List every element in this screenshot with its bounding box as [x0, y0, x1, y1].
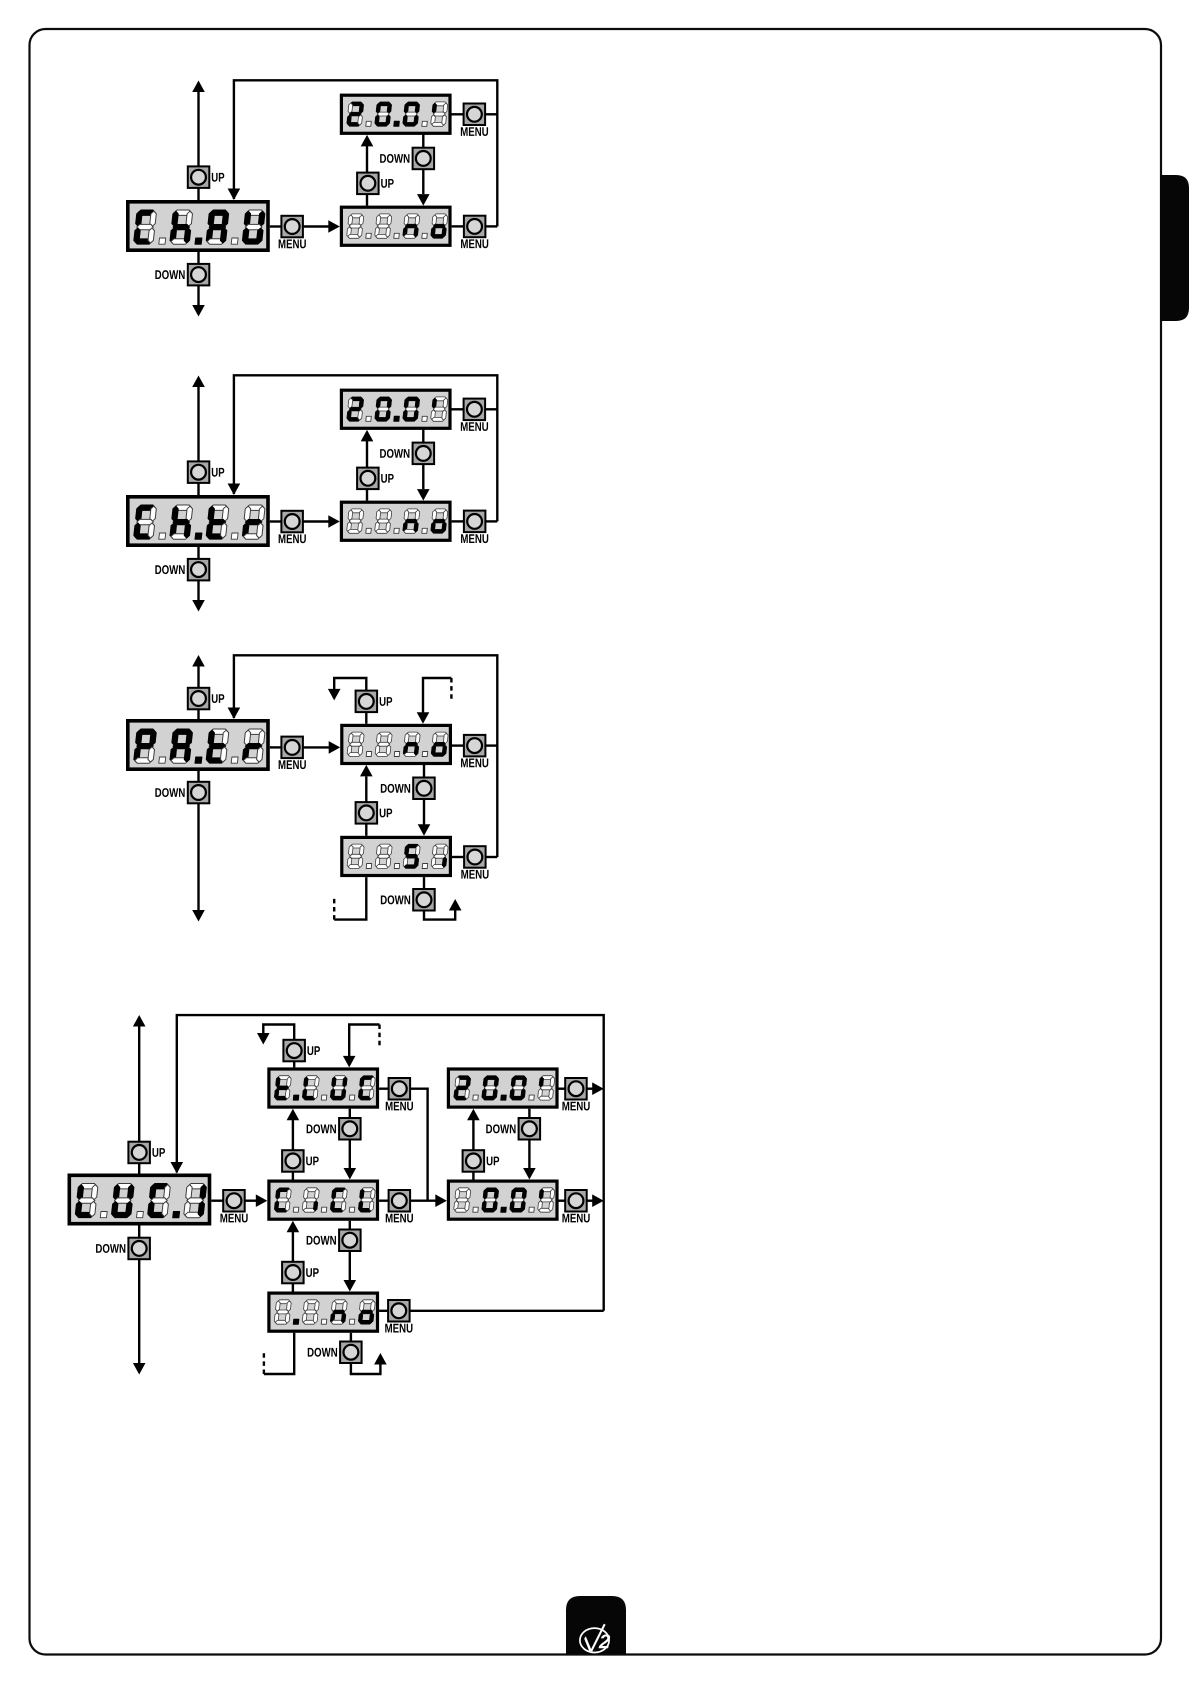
wire D3 no to DOWN [423, 765, 425, 778]
label DOWN [155, 788, 184, 797]
wire D4 MENU 0.0 exit [587, 1199, 595, 1201]
arrow D4 into 0.0 [435, 1194, 447, 1207]
display D4 CiCL [269, 1181, 378, 1219]
arrow D4 wrap into tLUC [343, 1056, 356, 1068]
display D1 no [341, 207, 450, 245]
wire D2 20.0 to MENU [451, 408, 463, 410]
button D1 MENU 20.0 [464, 104, 486, 126]
wire D2 display to MENU [270, 520, 282, 522]
arrow D4 down into CiCL [344, 1168, 357, 1180]
button D2 DOWN [188, 559, 210, 581]
label DOWN [307, 1236, 336, 1245]
button D4 MENU 20.0 [565, 1078, 587, 1100]
wire D3 dashed continuation [450, 678, 452, 700]
label MENU [461, 870, 488, 879]
arrow D2 axis down [192, 600, 205, 612]
wire D4 no to MENU [379, 1310, 388, 1312]
label UP [381, 179, 394, 188]
button D4 MENU tLUC [389, 1078, 411, 1100]
wire D2 no to 20.0 via UP [366, 441, 368, 501]
button D4 DOWN no [340, 1342, 362, 1364]
label UP [380, 809, 393, 818]
label UP [381, 474, 394, 483]
wire D4 DOWN wrap [351, 1363, 381, 1374]
wire D4 UP to tLUC [293, 1061, 295, 1067]
label DOWN [486, 1124, 515, 1133]
label UP [307, 1046, 320, 1055]
arrow D1 into main display [228, 189, 241, 201]
label UP [306, 1268, 319, 1277]
button D2 MENU 20.0 [464, 399, 486, 421]
wire D3 dashed wrap up [333, 898, 335, 920]
label MENU [279, 239, 306, 248]
display D2 20.0 [341, 390, 450, 428]
wire D4 MENU to CiCL [245, 1199, 258, 1201]
button D3 UP [188, 688, 210, 710]
wire D4 20.0 to MENU [558, 1087, 565, 1089]
wire D4 MENU tLUC join [410, 1089, 428, 1201]
button D2 MENU no [464, 511, 486, 532]
wire D4 MENU CiCL to 0.0 [410, 1199, 438, 1201]
wire D1 return loop [234, 80, 497, 226]
button D3 MENU main [281, 737, 303, 759]
button D4 MENU main [223, 1190, 245, 1212]
button D4 DOWN right [519, 1118, 541, 1140]
wire D4 20.0 to 0.0 via DOWN [528, 1109, 530, 1168]
display D3 main [128, 721, 268, 769]
wire D4 tLUC to MENU [379, 1087, 388, 1089]
label UP [487, 1157, 500, 1166]
button D4 UP mid2 [282, 1262, 304, 1284]
arrow D1 axis down [192, 305, 205, 317]
wire D1 display to MENU [270, 225, 282, 227]
label MENU [385, 1324, 412, 1333]
button D1 DOWN [188, 264, 210, 286]
wire D4 CiCL to tLUC via UP [292, 1120, 294, 1180]
button D4 UP right [463, 1150, 485, 1172]
display D1 20.0 [341, 95, 450, 133]
button D3 DOWN [188, 782, 210, 804]
wire D2 20.0 to no via DOWN [422, 429, 424, 489]
button D1 UP [188, 166, 210, 188]
label MENU [562, 1214, 589, 1223]
arrow D4 down into no [344, 1280, 357, 1292]
arrow D2 axis up [192, 376, 205, 388]
wire D3 MENU Si to loop [486, 856, 498, 858]
label DOWN [381, 895, 410, 904]
wire D2 axis upper [197, 387, 199, 495]
wire D4 tLUC UP wrap [263, 1025, 294, 1041]
label MENU [461, 758, 488, 767]
wire D4 dashed wrap up [263, 1353, 265, 1374]
label DOWN [381, 784, 410, 793]
wire D4 axis lower [138, 1226, 140, 1364]
wire D4 CiCL to MENU [379, 1199, 388, 1201]
wire D1 MENU no to loop [485, 225, 497, 227]
button D3 MENU Si [464, 846, 486, 868]
wire D3 Si to MENU [452, 856, 464, 858]
display D2 no [341, 502, 450, 540]
arrow D3 wrap into no [417, 712, 430, 724]
wire D4 0.0 to 20.0 via UP [472, 1120, 474, 1180]
button D1 MENU main [281, 216, 303, 238]
wire D4 dashed continuation [378, 1025, 380, 1046]
button D4 MENU no [388, 1300, 410, 1322]
button D4 MENU CiCL [389, 1190, 411, 1212]
wire D4 return loop [177, 1015, 604, 1311]
button D4 UP tLUC [283, 1040, 305, 1062]
label MENU [461, 239, 488, 248]
wire D4 no bottom wrap [264, 1333, 294, 1374]
wire D3 return loop [234, 655, 497, 857]
wire D1 axis lower [197, 252, 199, 305]
wire D3 UP to no [365, 712, 367, 724]
label MENU [461, 422, 488, 431]
V2 logo tab [566, 1596, 626, 1654]
button D3 MENU no [464, 735, 486, 757]
arrow D3 DOWN wrap up [449, 899, 462, 911]
wire D3 UP wrap loop [334, 678, 366, 691]
label MENU [279, 760, 306, 769]
arrow D4 into main display [171, 1162, 184, 1174]
button D3 DOWN mid [413, 778, 435, 800]
wire D1 no to MENU [452, 225, 464, 227]
wire D4 no to DOWN below [350, 1333, 352, 1342]
label MENU [461, 127, 488, 136]
button D2 UP [188, 461, 210, 483]
arrow D4 exit 0.0 [592, 1194, 604, 1207]
arrow D1 up into 20.0 [361, 135, 374, 147]
wire D3 UP to no bottom [365, 776, 367, 802]
display D4 main LUC.1 [69, 1175, 209, 1223]
wire D1 MENU to no-display [303, 225, 330, 227]
wire D2 axis lower [197, 547, 199, 600]
wire D1 MENU 20.0 to loop [485, 113, 497, 115]
label MENU [386, 1214, 413, 1223]
button D1 DOWN mid [413, 148, 435, 170]
wire D3 display to MENU [270, 746, 282, 748]
button D4 DOWN [128, 1238, 150, 1260]
wire D3 MENU to no-display [303, 746, 331, 748]
wire D2 return loop [234, 375, 497, 521]
wire D3 Si to DOWN below [423, 877, 425, 889]
button D3 UP no [356, 691, 378, 713]
arrow D4 tLUC UP wrap [257, 1033, 270, 1045]
label DOWN [307, 1124, 336, 1133]
black side tab [1160, 175, 1189, 321]
wire D2 MENU to no-display [303, 520, 330, 522]
arrow D3 into no-display [329, 741, 341, 754]
arrow D4 up into CiCL [287, 1221, 300, 1233]
button D4 DOWN mid1 [339, 1118, 361, 1140]
arrow D4 into CiCL [256, 1194, 267, 1207]
wire D3 no to MENU [452, 744, 464, 746]
wire D4 tLUC to CiCL via DOWN [349, 1109, 351, 1168]
label MENU [562, 1102, 589, 1111]
arrow D3 into no bottom [360, 765, 373, 777]
wire D3 Si to UP [365, 824, 367, 836]
arrow D4 axis up [133, 1015, 146, 1027]
wire D4 no to CiCL via UP [292, 1232, 294, 1292]
button D4 MENU 0.0 [565, 1190, 587, 1212]
arrow D2 down into no [417, 489, 430, 501]
wire D4 display to MENU [211, 1199, 223, 1201]
label DOWN [155, 565, 184, 574]
wire D4 CiCL to no via DOWN [349, 1221, 351, 1280]
wire D3 Si bottom wrap [334, 877, 366, 920]
wire D4 axis upper [138, 1027, 140, 1174]
arrow D1 into no-display [328, 220, 340, 233]
wire D1 axis upper [197, 92, 199, 200]
label UP [212, 173, 225, 182]
arrow D1 down into no [417, 194, 430, 206]
display D4 t.LUC [269, 1069, 378, 1107]
arrow D4 DOWN wrap up [374, 1353, 387, 1365]
wire D2 no to MENU [452, 520, 464, 522]
label MENU [220, 1214, 247, 1223]
label DOWN [380, 449, 409, 458]
label UP [380, 697, 393, 706]
wire D3 DOWN wrap [424, 910, 455, 920]
wire D3 axis upper [197, 667, 199, 720]
wire D2 MENU 20.0 to loop [485, 408, 497, 410]
wire D4 0.0 to MENU [558, 1199, 565, 1201]
label DOWN [380, 154, 409, 163]
button D4 UP mid1 [282, 1150, 304, 1172]
label UP [306, 1157, 319, 1166]
label MENU [279, 534, 306, 543]
button D2 UP mid [357, 468, 379, 490]
button D3 UP mid [356, 802, 378, 824]
display D4 20.0 [448, 1069, 557, 1107]
arrow D2 up into 20.0 [361, 430, 374, 442]
arrow D4 up into 20.0 [467, 1109, 480, 1121]
display D3 Si [342, 837, 451, 875]
wire D1 no to 20.0 via UP [366, 146, 368, 206]
arrow D4 up into tLUC [287, 1109, 300, 1121]
wire D4 MENU no to loop [410, 1310, 604, 1312]
arrow D4 down into 0.0 [523, 1168, 536, 1180]
wire D2 MENU no to loop [485, 520, 497, 522]
label MENU [386, 1102, 413, 1111]
button D2 DOWN mid [413, 443, 435, 465]
wire D1 20.0 to MENU [451, 113, 463, 115]
wire D3 MENU no to loop [485, 744, 497, 746]
label MENU [461, 534, 488, 543]
label UP [212, 468, 225, 477]
display D3 no [342, 725, 451, 763]
display D2 main [128, 497, 268, 545]
arrow D2 into main display [228, 484, 241, 496]
display D4 0.0 [448, 1181, 557, 1219]
arrow D3 into main display [228, 708, 241, 720]
label UP [212, 694, 225, 703]
button D1 MENU no [464, 216, 486, 238]
arrow D3 UP wrap [328, 689, 341, 701]
wire D1 20.0 to no via DOWN [422, 134, 424, 194]
V2 logo [580, 1624, 611, 1652]
wire D4 MENU 20.0 exit [587, 1087, 595, 1089]
wire D3 axis lower [197, 771, 199, 910]
button D3 DOWN Si [413, 889, 435, 911]
label UP [152, 1148, 165, 1157]
arrow D3 into Si [418, 824, 431, 836]
arrow D4 exit 20.0 [592, 1082, 604, 1095]
display D1 main [128, 202, 268, 250]
wire D3 DOWN to Si [423, 799, 425, 825]
button D1 UP mid [357, 173, 379, 195]
arrow D1 axis up [192, 81, 205, 93]
wire D4 wrap into tLUC [349, 1025, 379, 1057]
arrow D3 axis up [192, 655, 205, 667]
button D4 DOWN mid2 [339, 1230, 361, 1252]
arrow D2 into no-display [328, 515, 340, 528]
label DOWN [308, 1348, 337, 1357]
arrow D3 axis down [192, 910, 205, 922]
label DOWN [155, 270, 184, 279]
label DOWN [96, 1244, 125, 1253]
wire D3 wrap into no [423, 678, 451, 713]
arrow D4 axis down [133, 1363, 146, 1375]
button D2 MENU main [281, 511, 303, 533]
display D4 no [269, 1293, 378, 1331]
button D4 UP [128, 1142, 150, 1164]
